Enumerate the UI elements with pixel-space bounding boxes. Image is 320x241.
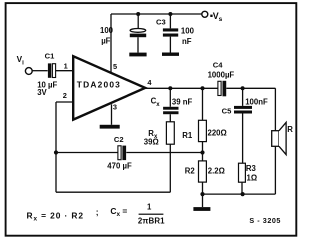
node Vs terminal — [202, 11, 208, 17]
pin 2 wire — [56, 101, 73, 103]
svg-text:;: ; — [96, 207, 99, 217]
wire output pin4 — [145, 87, 218, 89]
svg-text:1: 1 — [64, 61, 68, 70]
svg-text:C1: C1 — [45, 52, 55, 61]
svg-text:C4: C4 — [213, 60, 223, 69]
svg-text:R: R — [287, 125, 293, 134]
op-amp U1 TDA2003 — [73, 56, 145, 119]
svg-text:R3: R3 — [246, 164, 257, 173]
svg-text:2πBR1: 2πBR1 — [138, 217, 165, 226]
capacitor C3 — [156, 14, 195, 53]
svg-text:470 µF: 470 µF — [107, 162, 132, 171]
node Vi terminal — [25, 68, 32, 75]
svg-text:Cx =: Cx = — [110, 206, 127, 218]
junction Cx node — [168, 86, 172, 90]
wire feedback C2 row — [56, 152, 203, 154]
wire input to C1 — [32, 70, 48, 72]
formula Rx Cx — [27, 203, 166, 226]
junction R1/R2/C2 — [200, 150, 204, 154]
capacitor C1 — [37, 52, 57, 98]
junction ground rail R3 — [241, 192, 245, 196]
wire Vs top rail — [111, 13, 201, 15]
svg-text:39Ω: 39Ω — [144, 138, 159, 147]
capacitor C4 — [208, 60, 235, 96]
speaker R — [272, 122, 294, 154]
svg-text:2: 2 — [63, 91, 67, 100]
resistor R2 — [185, 153, 225, 195]
resistor Rx — [144, 114, 174, 152]
svg-text:Vs: Vs — [213, 11, 223, 23]
svg-text:2.2Ω: 2.2Ω — [208, 166, 225, 175]
junction C5 node — [241, 86, 245, 90]
capacitor 100uF supply — [100, 14, 146, 53]
svg-text:S - 3205: S - 3205 — [249, 216, 281, 225]
svg-text:Rx = 20 · R2: Rx = 20 · R2 — [27, 210, 84, 222]
wire pin2 down — [55, 102, 57, 192]
svg-text:100: 100 — [100, 26, 114, 35]
svg-text:100nF: 100nF — [245, 98, 268, 107]
ground (C3) — [162, 53, 179, 56]
junction pin2/C2 — [54, 150, 58, 154]
resistor R3 — [239, 114, 258, 195]
svg-text:TDA2003: TDA2003 — [77, 80, 121, 90]
svg-text:nF: nF — [182, 37, 192, 46]
capacitor C2 — [107, 135, 132, 171]
svg-text:C5: C5 — [222, 107, 232, 116]
capacitor C5 — [222, 88, 268, 115]
svg-text:Cx: Cx — [151, 97, 161, 108]
ground (100uF) — [129, 53, 146, 57]
resistor R1 — [182, 88, 226, 152]
svg-text:R2: R2 — [185, 166, 196, 175]
junction R1 node — [201, 86, 205, 90]
wire speaker to rail — [274, 146, 276, 194]
junction on rail (100uF) — [136, 12, 140, 16]
svg-text:1Ω: 1Ω — [247, 173, 258, 182]
svg-text:5: 5 — [113, 62, 117, 71]
wire C1 to pin1 — [56, 70, 74, 72]
svg-text:3: 3 — [113, 103, 117, 112]
svg-text:39 nF: 39 nF — [172, 98, 193, 107]
svg-text:4: 4 — [147, 78, 152, 87]
pin 5 wire — [110, 14, 112, 73]
svg-text:1: 1 — [147, 203, 152, 212]
svg-text:3V: 3V — [37, 88, 47, 97]
ground (pin 3) — [100, 125, 120, 129]
svg-text:C3: C3 — [156, 18, 166, 27]
ground (rail) — [193, 194, 210, 211]
svg-text:1000µF: 1000µF — [208, 71, 235, 80]
wire ground rail — [203, 193, 276, 195]
wire C4 to speaker — [226, 88, 275, 130]
svg-text:C2: C2 — [114, 135, 124, 144]
svg-text:µF: µF — [101, 37, 110, 46]
svg-text:R1: R1 — [182, 131, 193, 140]
junction ground rail R2 — [200, 192, 204, 196]
svg-text:Vi: Vi — [17, 55, 24, 66]
junction on rail (C3) — [168, 12, 172, 16]
capacitor Cx — [151, 88, 193, 114]
svg-text:220Ω: 220Ω — [208, 129, 227, 138]
svg-text:100: 100 — [181, 26, 195, 35]
label +Vs — [210, 11, 222, 23]
wire return loop bottom-left — [56, 153, 170, 193]
pin 3 wire — [111, 104, 113, 125]
